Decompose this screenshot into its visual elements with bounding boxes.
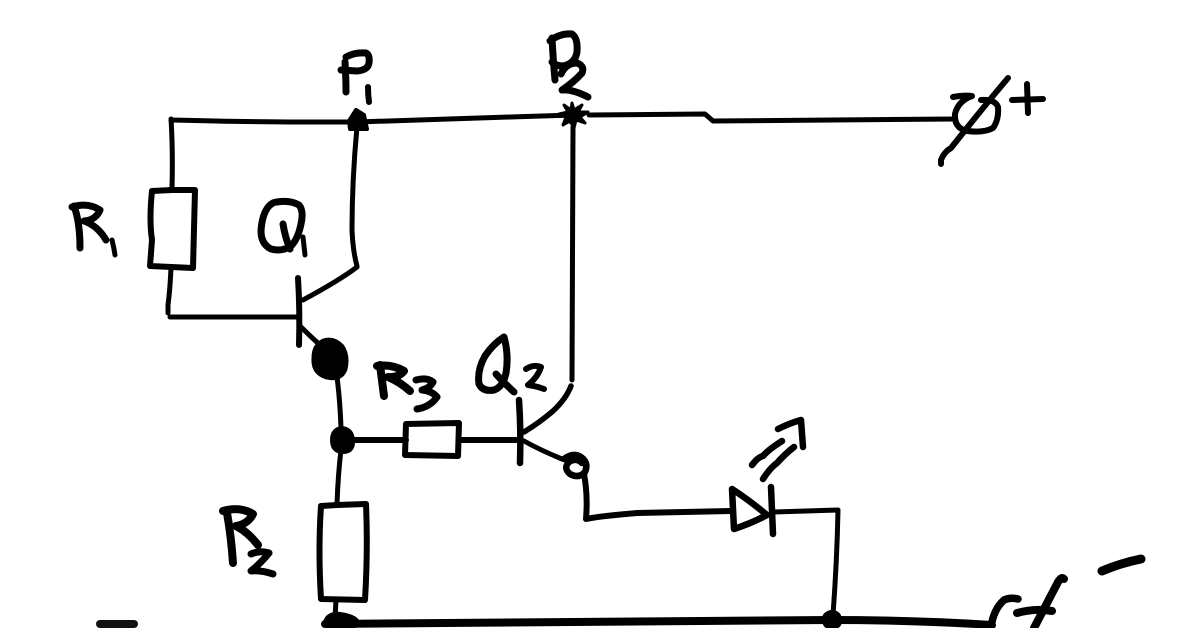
wire Q2 emitter to LED (584, 474, 731, 519)
wire top rail P1 to P2 (357, 115, 574, 122)
junction blob bottom of R2 (326, 614, 357, 628)
label R3 (377, 365, 437, 409)
LED D1 arrow shaft 2 (763, 447, 794, 479)
LED D1 arrow shaft 1 (752, 441, 782, 465)
wire bottom rail (325, 620, 992, 625)
stray dash bottom left (100, 620, 134, 628)
resistor R3 (405, 423, 459, 456)
label P1 (341, 53, 369, 102)
wire R2 bottom to rail (335, 600, 336, 618)
wire top rail left segment (171, 120, 357, 122)
emitter arrow scribble blob Q1 (315, 341, 345, 377)
wire left drop from rail to R1 (171, 119, 172, 189)
transistor Q2 collector lead (524, 386, 571, 432)
wire base rail to Q1 (170, 315, 297, 320)
emitter loop blob Q2 (564, 455, 586, 476)
label R1 (72, 205, 115, 255)
plus terminal circle (953, 96, 998, 132)
wire LED to bottom rail (774, 510, 838, 615)
LED D1 triangle (732, 489, 767, 529)
wire top rail P2 to plus terminal (589, 114, 955, 121)
label P2 (550, 34, 588, 97)
resistor R2 (320, 504, 367, 600)
resistor R1 (150, 190, 195, 268)
node P2 junction star (559, 103, 588, 128)
label Q2 (479, 337, 544, 392)
junction blob bottom of LED branch (824, 612, 840, 627)
node A junction blob (333, 429, 352, 451)
minus terminal slash (1034, 578, 1064, 628)
LED D1 cathode bar (771, 487, 773, 534)
LED D1 arrow head (778, 420, 803, 447)
transistor Q1 base bar (298, 278, 299, 345)
wire P1 down to Q1 collector (352, 127, 357, 266)
transistor Q2 emitter lead (524, 441, 562, 459)
wire R3 to Q2 base (459, 437, 516, 443)
label Q1 (261, 201, 305, 255)
label plus (1012, 84, 1043, 113)
minus terminal arc (991, 598, 1018, 628)
minus terminal crossbar (1017, 610, 1052, 613)
plus terminal slash (941, 78, 1008, 164)
transistor Q1 collector lead (303, 267, 357, 300)
node P1 junction blob (349, 110, 367, 129)
wire R1 bottom to base rail (168, 268, 171, 313)
wire node A to R3 (352, 437, 406, 443)
transistor Q2 base bar (519, 400, 520, 463)
transistor Q1 emitter lead (301, 327, 320, 345)
wire node A down to R2 (337, 450, 341, 504)
wire Q1 emitter blob down to node A (337, 377, 341, 428)
wire P2 down to Q2 collector (572, 127, 573, 380)
label minus (1102, 559, 1141, 571)
label R2 (223, 509, 273, 574)
